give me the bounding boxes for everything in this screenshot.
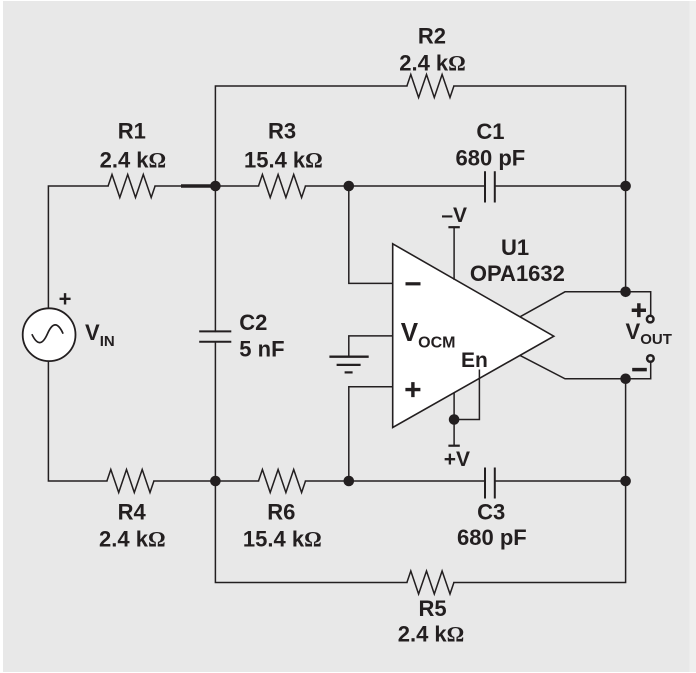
thick wire segment at node1 [181,184,215,187]
-V supply [441,204,467,280]
wire C2 top lead [214,186,216,331]
resistor R1 [100,119,167,198]
svg-text:R6: R6 [267,500,295,525]
svg-text:R5: R5 [418,596,446,621]
svg-text:En: En [461,349,488,372]
wire C3 right plate to right rail [495,480,626,482]
wire En to +V [454,370,479,420]
wire C2 bottom lead [214,342,216,481]
wire R4 right lead [154,480,216,482]
junction En/+V [449,414,460,425]
ground at VOCM [329,357,368,373]
junction C1 right [620,181,631,192]
resistor R2 [399,24,466,98]
svg-text:R2: R2 [418,24,446,49]
wire output+ lead [520,292,626,317]
source VIN [23,287,115,362]
terminal circle plus [647,316,654,323]
op-amp U1 [393,235,565,428]
wire node3 to bottom rail [215,481,407,583]
svg-text:–V: –V [441,204,467,227]
wire VIN top lead to R1 [48,186,108,308]
svg-text:R3: R3 [268,119,296,144]
wire C1 right plate to right rail [495,185,626,187]
resistor R3 [244,119,323,198]
resistor R6 [243,470,322,552]
svg-text:15.4 kΩ: 15.4 kΩ [244,148,323,173]
wire top rail right of R2 down right rail [454,86,626,292]
wire node2 to C1 left plate [349,185,485,187]
wire VOCM lead [349,336,393,357]
svg-text:OPA1632: OPA1632 [470,261,565,286]
junction node1 [210,181,221,192]
wire VOUT minus terminal [626,362,651,379]
+V supply [444,393,470,471]
VOUT labels [626,303,672,369]
capacitor C1 [456,119,526,203]
wire R3 right lead [306,185,349,187]
wire node4 to C3 left plate [349,480,485,482]
capacitor C2 [199,310,284,362]
svg-text:R4: R4 [118,500,147,525]
wire R6 right lead [306,480,349,482]
wire output- lead [520,355,626,378]
wire noninverting input branch [349,387,393,481]
junction node3 [210,476,221,487]
resistor R5 [398,571,465,647]
wire VOUT plus terminal [626,292,651,316]
wire node1 to top rail [215,86,407,186]
junction node4 [344,476,355,487]
terminal circle minus [647,355,654,362]
wire R3 left lead [215,185,258,187]
capacitor C3 [457,468,527,551]
svg-text:680 pF: 680 pF [457,525,527,550]
wire R1 right lead [155,185,215,187]
wire bottom rail right of R5 up right rail [454,379,626,583]
svg-text:C2: C2 [239,310,267,335]
junction C3 right [620,476,631,487]
svg-text:U1: U1 [501,235,529,260]
svg-text:+: + [59,287,72,312]
junction out+ [620,287,631,298]
svg-text:15.4 kΩ: 15.4 kΩ [243,527,322,552]
wire R6 left lead [215,480,258,482]
svg-text:5 nF: 5 nF [239,337,284,362]
svg-text:C1: C1 [476,119,504,144]
junction out- [620,374,631,385]
svg-text:2.4 kΩ: 2.4 kΩ [99,527,166,552]
svg-text:R1: R1 [118,119,146,144]
wire inverting input branch [349,186,393,283]
pin label plus [405,382,420,397]
pin label minus [406,282,421,285]
svg-text:2.4 kΩ: 2.4 kΩ [100,148,167,173]
svg-text:2.4 kΩ: 2.4 kΩ [399,51,466,76]
wire VIN bottom lead to R4 [48,361,107,481]
svg-text:C3: C3 [477,500,505,525]
svg-text:680 pF: 680 pF [456,146,526,171]
svg-text:2.4 kΩ: 2.4 kΩ [398,622,465,647]
svg-text:+V: +V [444,448,470,471]
junction node2 [344,181,355,192]
resistor R4 [99,470,166,552]
